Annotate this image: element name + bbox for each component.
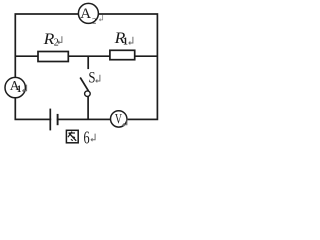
svg-text:6: 6 xyxy=(84,128,90,148)
svg-text:1: 1 xyxy=(17,85,22,95)
svg-text:A: A xyxy=(80,6,91,22)
svg-text:R: R xyxy=(43,30,55,48)
svg-text:S: S xyxy=(88,69,95,87)
svg-text:2: 2 xyxy=(92,16,96,26)
svg-text:1: 1 xyxy=(123,37,128,48)
svg-text:V: V xyxy=(115,111,122,127)
